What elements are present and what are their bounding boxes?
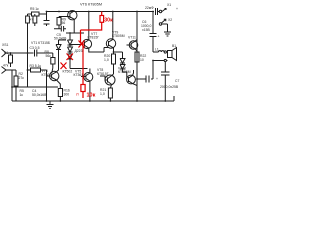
capacitor C7 <box>161 62 174 101</box>
resistor R6 <box>26 16 30 23</box>
svg-text:56: 56 <box>62 21 66 25</box>
capacitor C6 big <box>150 12 157 53</box>
wire VT7 emitter to VT9 base <box>89 48 104 53</box>
wire VT6 collector/emitter <box>89 69 91 102</box>
plug XP1 <box>159 10 161 12</box>
capacitor C6 series top <box>153 8 159 15</box>
svg-text:R1: R1 <box>4 51 8 55</box>
transistor VT10 <box>127 75 136 84</box>
svg-text:Х1: Х1 <box>167 3 171 7</box>
transistor VT3 <box>50 71 59 80</box>
resistor R22 lower stub <box>136 62 138 74</box>
wire VT11 collector <box>135 40 137 42</box>
wire VT2 emitter down <box>66 19 84 33</box>
wire VT3 collector <box>57 50 59 72</box>
wire VT8 base feed <box>100 76 105 80</box>
resistor R22 <box>135 49 137 52</box>
svg-text:R3 5,1к: R3 5,1к <box>30 64 42 68</box>
svg-text:+: + <box>156 77 158 81</box>
svg-text:30к: 30к <box>104 18 113 24</box>
diode VD1 <box>56 40 66 50</box>
transistor VT9 <box>106 39 115 48</box>
diodes VD5 VD6 <box>114 52 127 78</box>
svg-text:КТ361: КТ361 <box>74 73 84 77</box>
resistor R3 horizontal <box>28 69 47 71</box>
wire cap branch <box>46 12 48 27</box>
wire red vertical <box>81 30 84 98</box>
speaker BA1 <box>168 51 173 58</box>
svg-text:КТ815Г: КТ815Г <box>88 36 100 40</box>
transistor VT2 <box>68 11 77 20</box>
resistor R-new top (red) <box>100 16 104 23</box>
resistor R1 <box>10 53 12 55</box>
speaker pins <box>164 51 166 53</box>
svg-text:КТ815Г: КТ815Г <box>97 72 109 76</box>
wire VT7 collector <box>88 12 90 40</box>
svg-text:1к: 1к <box>20 93 24 97</box>
transistor VT7 <box>82 39 91 48</box>
resistor R-new mid (red) <box>81 85 85 92</box>
wire mid-left rail <box>12 86 58 88</box>
wire bottom rail <box>12 100 174 102</box>
svg-text:50,0х6В: 50,0х6В <box>54 37 67 41</box>
wire top rail <box>47 11 154 13</box>
svg-text:10к: 10к <box>87 93 96 99</box>
wire VT8 collector <box>112 74 114 76</box>
svg-text:47: 47 <box>30 18 34 22</box>
resistor R20 <box>113 48 115 54</box>
svg-text:КТ502: КТ502 <box>63 70 73 74</box>
X cross 1 <box>79 41 85 48</box>
input jack XS2 <box>2 67 13 74</box>
svg-text:VT6 КТ805М: VT6 КТ805М <box>80 3 102 7</box>
X cross 2 <box>67 54 74 61</box>
plug pin2 <box>159 23 161 25</box>
svg-text:+: + <box>158 35 160 39</box>
svg-text:Х2: Х2 <box>168 18 172 22</box>
svg-text:R5 1к: R5 1к <box>30 7 39 11</box>
input jack XS1 <box>2 49 34 57</box>
svg-text:Л: Л <box>76 92 79 97</box>
ground bottom <box>47 101 54 109</box>
svg-text:Д223: Д223 <box>75 49 83 53</box>
resistor R8 <box>52 53 54 58</box>
svg-text:22мФ: 22мФ <box>145 6 154 10</box>
svg-text:VT11: VT11 <box>128 36 136 40</box>
svg-text:47к: 47к <box>3 64 9 68</box>
resistor R2 <box>12 70 16 101</box>
transistor VT8 <box>105 75 115 85</box>
transistor VT11 <box>129 41 138 50</box>
svg-text:КТ805М: КТ805М <box>112 34 125 38</box>
svg-text:2000,0х25В: 2000,0х25В <box>160 85 179 89</box>
capacitor C2 <box>44 21 50 25</box>
wire left bias chain <box>27 14 29 87</box>
resistor R10 <box>57 80 61 89</box>
svg-text:VT1 КТ315Б: VT1 КТ315Б <box>31 41 51 45</box>
svg-text:КТ502: КТ502 <box>42 73 52 77</box>
svg-text:В1: В1 <box>172 44 176 48</box>
svg-text:27к: 27к <box>19 76 25 80</box>
svg-text:C7: C7 <box>175 79 179 83</box>
svg-text:КТ805М: КТ805М <box>118 70 131 74</box>
wire top stub <box>28 13 47 15</box>
wire old base feed <box>70 44 82 46</box>
svg-text:х15В: х15В <box>142 28 150 32</box>
wire to VT3 base <box>47 70 52 101</box>
junction dots <box>10 11 167 102</box>
capacitor C5 <box>54 26 66 32</box>
resistor R5 <box>32 12 40 16</box>
resistor R21 <box>110 84 111 88</box>
wire VT10 emitter out <box>133 79 138 86</box>
svg-text:+: + <box>176 7 178 11</box>
red modification overlay <box>61 12 104 99</box>
svg-text:300: 300 <box>64 93 70 97</box>
svg-text:1,0: 1,0 <box>100 92 105 96</box>
component labels (tiny) <box>2 3 179 98</box>
svg-text:L1: L1 <box>155 48 159 52</box>
svg-text:С3 0,5: С3 0,5 <box>30 46 40 50</box>
resistor R9 <box>59 17 70 18</box>
wire red branch to VT7 base <box>83 43 85 45</box>
transistor VT6 <box>84 73 93 82</box>
capacitor C8 <box>146 76 149 83</box>
wire output node <box>137 61 153 80</box>
inductor L1 <box>153 51 164 52</box>
diode chain VD2-VD4 <box>69 33 71 40</box>
X cross 3 <box>61 63 67 70</box>
wire VT9 collector <box>112 12 114 40</box>
wire VT10 collector <box>133 70 134 75</box>
svg-text:XS1: XS1 <box>2 43 9 47</box>
svg-text:1,0: 1,0 <box>104 58 109 62</box>
capacitor C1 <box>35 50 53 57</box>
svg-text:10: 10 <box>140 58 144 62</box>
resistor R7 <box>34 14 36 26</box>
svg-text:50,0х16В: 50,0х16В <box>32 93 47 97</box>
wire left down <box>11 70 13 101</box>
wire supply vertical <box>136 12 138 102</box>
ground right <box>162 24 171 36</box>
svg-text:56к: 56к <box>46 54 52 58</box>
